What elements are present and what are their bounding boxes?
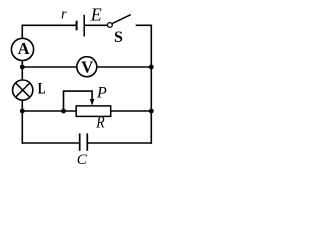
svg-text:C: C (77, 152, 88, 168)
junction dot: lamp/R node (20, 109, 25, 114)
svg-text:A: A (18, 39, 30, 58)
wire: top rail middle segment (battery to switch) (84, 24, 107, 26)
resistor R box (76, 106, 111, 117)
capacitor C right plate (86, 133, 88, 150)
junction dot: right voltmeter node (149, 65, 154, 70)
switch S pivot circle (108, 23, 113, 28)
battery cell: long plate (positive) (83, 15, 85, 37)
svg-text:V: V (81, 58, 93, 77)
wire: left rail (lamp to bottom rail) (21, 101, 23, 144)
wire: top rail right segment (switch to top-right corner) (136, 24, 152, 26)
junction dot: wiper node (61, 109, 66, 114)
lamp L (circle with X) (13, 80, 33, 100)
junction dot: left voltmeter node (20, 65, 25, 70)
svg-text:r: r (61, 7, 67, 23)
ammeter A (11, 38, 33, 60)
svg-text:R: R (95, 112, 105, 131)
wire: top rail left segment (left rail top corner to battery) (22, 25, 76, 37)
wire: bottom rail right segment (87, 142, 152, 144)
switch S lever (112, 15, 131, 24)
capacitor C left plate (79, 133, 81, 150)
svg-text:P: P (96, 84, 107, 101)
rheostat wiper wire P (64, 91, 93, 111)
svg-text:E: E (90, 5, 102, 25)
wiper arrowhead (90, 99, 95, 106)
wire: R branch left (lamp node to resistor) (22, 110, 76, 112)
wire: left rail (ammeter to lamp) (21, 61, 23, 80)
svg-text:L: L (38, 81, 46, 98)
wire: voltmeter branch right (97, 66, 151, 68)
voltmeter V (77, 57, 97, 77)
wire: R branch right (resistor to right rail) (111, 110, 152, 112)
wire: voltmeter branch left (22, 66, 76, 68)
battery cell: short plate (negative) (76, 21, 78, 31)
junction dot: right R node (149, 109, 154, 114)
svg-text:S: S (114, 29, 123, 46)
wire: right rail (150, 25, 152, 144)
wire: bottom rail left segment (22, 142, 80, 144)
